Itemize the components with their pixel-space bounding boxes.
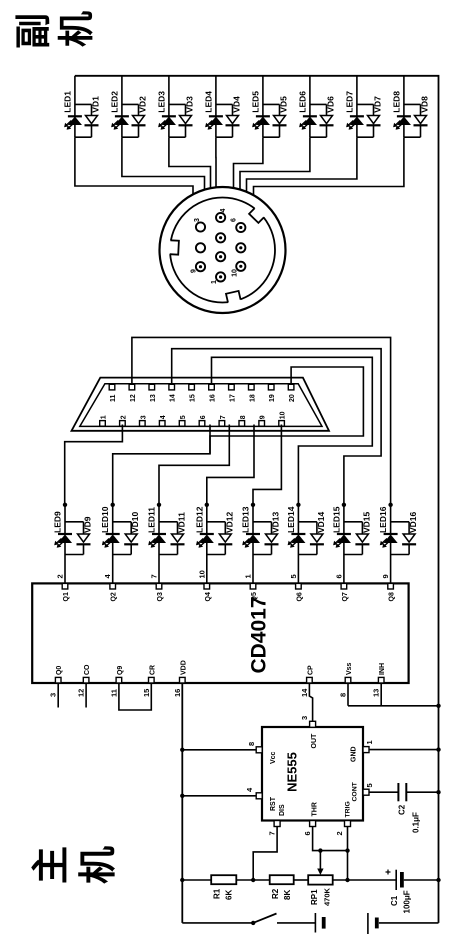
label C2 value xyxy=(412,812,421,833)
svg-text:12: 12 xyxy=(77,689,86,697)
svg-text:VD8: VD8 xyxy=(420,96,430,113)
svg-text:470K: 470K xyxy=(323,887,332,906)
wire U1 pin14 to U2 pin3 xyxy=(309,683,312,721)
resistor R2 xyxy=(270,875,294,884)
svg-text:LED5: LED5 xyxy=(250,91,260,113)
svg-text:1: 1 xyxy=(365,740,374,744)
svg-text:13: 13 xyxy=(372,689,381,697)
switch K blade xyxy=(253,914,276,923)
svg-text:VD12: VD12 xyxy=(224,511,234,533)
svg-text:VD13: VD13 xyxy=(271,511,281,533)
wire pin16 wrap to LED14 xyxy=(212,357,373,505)
svg-text:VD2: VD2 xyxy=(138,96,148,113)
diode VD2 xyxy=(132,116,146,126)
connector J2 top pin numbers 11-20 xyxy=(110,394,296,402)
svg-text:OUT: OUT xyxy=(311,733,318,749)
label R2 value xyxy=(283,890,292,900)
label VD10 xyxy=(130,511,140,533)
wire LED pair 8 to DIN connector xyxy=(254,137,404,195)
svg-text:8: 8 xyxy=(339,693,348,697)
U2 pad GND pin1 xyxy=(363,747,369,753)
wire U2 THR to wiper xyxy=(313,827,350,853)
svg-text:15: 15 xyxy=(190,394,197,402)
wire LED pair 3 to DIN connector xyxy=(169,137,211,188)
wire pin20 wrap xyxy=(210,367,363,454)
U1 top pin numbers xyxy=(56,570,391,578)
diode VD3 xyxy=(179,116,193,126)
svg-text:Vss: Vss xyxy=(346,662,353,675)
wire rail2 left xyxy=(182,921,255,925)
LED LED16 xyxy=(380,534,398,548)
label U1 CD4017 xyxy=(248,596,271,673)
svg-text:VD10: VD10 xyxy=(130,511,140,533)
U2 pin numbers xyxy=(245,716,374,836)
U2 pad CONT pin5 xyxy=(363,789,369,795)
label master-unit 主机 xyxy=(31,846,120,884)
U2 pad THR pin6 xyxy=(310,821,316,827)
svg-text:VD1: VD1 xyxy=(91,96,101,113)
svg-text:THR: THR xyxy=(312,802,319,816)
diode VD9 xyxy=(77,534,91,544)
label VD16 xyxy=(408,511,418,533)
wire U1 pin8 pin13 to ground rail xyxy=(348,683,441,708)
svg-text:VD6: VD6 xyxy=(326,96,336,113)
label LED3 xyxy=(156,91,166,113)
svg-text:LED11: LED11 xyxy=(147,507,157,533)
svg-text:CONT: CONT xyxy=(352,781,359,801)
label LED2 xyxy=(109,91,119,113)
svg-text:4: 4 xyxy=(160,415,167,419)
label LED11 xyxy=(147,507,157,533)
svg-text:Vcc: Vcc xyxy=(270,751,277,764)
svg-text:100μF: 100μF xyxy=(403,890,412,913)
svg-text:VD7: VD7 xyxy=(373,96,383,113)
wire VDD to U2 RST xyxy=(180,794,256,798)
LED LED3 xyxy=(158,116,176,130)
LED LED12 xyxy=(196,534,214,548)
connector J1 pin numbers xyxy=(191,208,239,284)
resistor R1 xyxy=(211,875,236,884)
svg-text:TRIG: TRIG xyxy=(345,801,352,817)
svg-text:14: 14 xyxy=(300,688,309,697)
svg-text:7: 7 xyxy=(268,831,277,835)
svg-text:LED14: LED14 xyxy=(286,506,296,533)
wire C2 to rail xyxy=(406,790,440,794)
connector J2 bottom row pins xyxy=(100,421,285,427)
diode VD8 xyxy=(414,116,428,126)
diode VD1 xyxy=(85,116,99,126)
wire LED pair 9 branches xyxy=(65,505,84,584)
label LED8 xyxy=(391,91,401,113)
label LED1 xyxy=(62,91,72,113)
wire pin14 wrap to LED15 xyxy=(172,349,381,505)
wire R2 to RP1 xyxy=(294,879,309,881)
svg-text:VD11: VD11 xyxy=(177,512,187,533)
U1 top pads xyxy=(62,583,393,589)
label C1 xyxy=(390,895,399,906)
wire VDD rail xyxy=(181,683,183,923)
svg-text:副: 副 xyxy=(13,13,54,49)
wire LED pair 4 branches xyxy=(216,76,233,137)
wire U2 TRIG to rail1 xyxy=(345,827,349,883)
wire LED pair 5 branches xyxy=(263,76,280,137)
svg-text:20: 20 xyxy=(289,394,296,402)
svg-text:6: 6 xyxy=(334,574,343,578)
svg-text:4: 4 xyxy=(220,208,227,212)
svg-text:CP: CP xyxy=(307,665,314,675)
wire U1 pin3 stub xyxy=(57,683,59,708)
svg-text:2: 2 xyxy=(335,831,344,835)
label R1 xyxy=(213,888,222,899)
label LED13 xyxy=(241,506,251,533)
label VD8 xyxy=(420,96,430,113)
label VD11 xyxy=(177,512,187,533)
label U2 NE555 xyxy=(285,752,300,792)
capacitor C1 polarized xyxy=(386,870,402,891)
wire LED pair 6 branches xyxy=(310,76,327,137)
svg-text:6: 6 xyxy=(231,218,238,222)
wire R1 to R2 xyxy=(236,879,269,881)
svg-text:9: 9 xyxy=(381,574,390,578)
wire pin9 to LED12 xyxy=(207,425,254,505)
svg-text:LED3: LED3 xyxy=(156,91,166,113)
svg-text:Q8: Q8 xyxy=(389,592,396,601)
label VD7 xyxy=(373,96,383,113)
svg-text:DIS: DIS xyxy=(279,804,286,816)
diode VD15 xyxy=(355,534,369,544)
label LED14 xyxy=(286,506,296,533)
svg-text:13: 13 xyxy=(150,394,157,402)
svg-text:LED10: LED10 xyxy=(100,506,110,533)
LED LED5 xyxy=(252,116,270,130)
label R1 value xyxy=(225,890,234,900)
svg-text:LED12: LED12 xyxy=(194,506,204,533)
diode VD7 xyxy=(367,116,381,126)
label slave-unit 副机 xyxy=(13,11,97,49)
svg-text:Q1: Q1 xyxy=(63,592,70,601)
svg-text:Q7: Q7 xyxy=(342,592,349,601)
label LED4 xyxy=(203,91,213,113)
LED LED11 xyxy=(148,534,166,548)
svg-text:1: 1 xyxy=(211,280,218,284)
svg-text:Q5: Q5 xyxy=(251,592,258,601)
svg-text:Q6: Q6 xyxy=(296,592,303,601)
LED LED8 xyxy=(393,116,411,130)
svg-text:LED4: LED4 xyxy=(203,91,213,113)
svg-text:10: 10 xyxy=(232,269,239,277)
wire switch to battery xyxy=(277,922,315,924)
label LED7 xyxy=(344,91,354,113)
wire LED pair 8 branches xyxy=(404,76,421,137)
svg-text:NE555: NE555 xyxy=(285,752,300,792)
wire pin2 to LED9 xyxy=(65,425,123,505)
wire C1 to rail xyxy=(404,878,441,882)
svg-text:RP1: RP1 xyxy=(310,889,319,905)
label VD15 xyxy=(361,511,371,533)
svg-text:9: 9 xyxy=(191,269,198,273)
wire battery to rail xyxy=(379,922,439,924)
svg-text:8K: 8K xyxy=(283,890,292,900)
svg-text:VD15: VD15 xyxy=(361,511,371,533)
label VD5 xyxy=(279,96,289,113)
wire LED pair 7 to DIN connector xyxy=(247,137,357,192)
svg-text:LED2: LED2 xyxy=(109,91,119,113)
LED LED14 xyxy=(288,534,306,548)
svg-text:机: 机 xyxy=(78,846,120,884)
svg-text:12: 12 xyxy=(130,394,137,402)
svg-text:GND: GND xyxy=(351,746,358,762)
svg-text:18: 18 xyxy=(249,394,256,402)
wire LED pair 13 branches xyxy=(253,505,272,584)
svg-text:16: 16 xyxy=(210,394,217,402)
battery cell 1 xyxy=(315,913,323,933)
wire U1 pin12 stub xyxy=(85,683,87,708)
svg-text:VD3: VD3 xyxy=(185,96,195,113)
svg-text:1: 1 xyxy=(101,415,108,419)
U2 pad DIS pin7 xyxy=(274,821,280,827)
IC U1 CD4017 body xyxy=(32,583,408,683)
label RP1 value xyxy=(323,887,332,906)
wire U1 pin11 to pin15 xyxy=(119,683,151,710)
label C2 xyxy=(398,804,407,815)
svg-text:14: 14 xyxy=(170,394,177,402)
svg-text:Q9: Q9 xyxy=(117,666,124,675)
U2 pad VCC pin8 xyxy=(256,747,262,753)
diode VD13 xyxy=(265,534,279,544)
label RP1 xyxy=(310,889,319,905)
wire LED pair 4 to DIN connector xyxy=(215,137,217,187)
label LED15 xyxy=(331,506,341,533)
connector J1 ring pins xyxy=(196,213,246,282)
svg-text:3: 3 xyxy=(194,218,201,222)
diode VD5 xyxy=(273,116,287,126)
U1 bottom pin numbers xyxy=(49,688,381,697)
svg-text:主: 主 xyxy=(31,846,73,884)
svg-text:LED15: LED15 xyxy=(331,506,341,533)
svg-text:5: 5 xyxy=(180,415,187,419)
svg-text:15: 15 xyxy=(142,689,151,697)
svg-text:VD9: VD9 xyxy=(83,516,93,533)
connector J2 outline inner xyxy=(80,384,322,427)
svg-text:机: 机 xyxy=(56,11,97,47)
junction dots row2 xyxy=(63,503,393,507)
diode VD6 xyxy=(320,116,334,126)
connector J2 bottom pin numbers 1-10 xyxy=(101,411,287,419)
svg-text:16: 16 xyxy=(173,689,182,697)
U1 top pin names Q1-Q8 xyxy=(63,592,396,601)
svg-text:LED1: LED1 xyxy=(62,91,72,113)
svg-text:LED6: LED6 xyxy=(297,91,307,113)
U1 bottom pin names xyxy=(56,660,386,675)
connector J1 key notch top-right xyxy=(249,206,266,223)
svg-text:LED8: LED8 xyxy=(391,91,401,113)
svg-text:CR: CR xyxy=(149,665,156,675)
diode VD16 xyxy=(402,534,416,544)
connector J1 key notch bottom xyxy=(226,291,241,306)
LED LED15 xyxy=(333,534,351,548)
svg-text:0.1μF: 0.1μF xyxy=(412,812,421,833)
wire pin12 wrap to LED16 xyxy=(132,337,391,504)
svg-text:3: 3 xyxy=(49,693,58,697)
diode VD12 xyxy=(218,534,232,544)
LED LED13 xyxy=(242,534,260,548)
svg-text:11: 11 xyxy=(110,394,117,402)
wire LED pair 1 branches xyxy=(75,76,92,137)
label R2 xyxy=(271,888,280,899)
wire LED pair 11 branches xyxy=(159,505,178,584)
wire U2 CONT to C2 xyxy=(369,791,398,793)
svg-text:LED7: LED7 xyxy=(344,91,354,113)
wire LED pair 14 branches xyxy=(298,505,317,584)
wire LED pair 1 to DIN connector xyxy=(75,137,193,194)
wire U2 DIS to R1-R2 node xyxy=(251,827,277,883)
label VD4 xyxy=(232,96,242,113)
svg-text:7: 7 xyxy=(150,574,159,578)
wire top bus and right rail xyxy=(75,76,439,923)
connector J2 top row pins xyxy=(109,384,294,390)
svg-text:VDD: VDD xyxy=(180,660,187,675)
wire VDD to U2 VCC xyxy=(180,748,256,752)
svg-text:5: 5 xyxy=(365,783,374,787)
label LED5 xyxy=(250,91,260,113)
LED LED10 xyxy=(102,534,120,548)
svg-text:CO: CO xyxy=(84,664,91,675)
svg-text:LED9: LED9 xyxy=(53,511,63,533)
svg-text:8: 8 xyxy=(247,742,256,746)
svg-text:9: 9 xyxy=(260,415,267,419)
diode VD11 xyxy=(171,534,185,544)
label LED6 xyxy=(297,91,307,113)
label LED9 xyxy=(53,511,63,533)
label VD13 xyxy=(271,511,281,533)
svg-text:LED13: LED13 xyxy=(241,506,251,533)
wire LED pair 12 branches xyxy=(207,505,226,584)
wire LED pair 15 branches xyxy=(344,505,363,584)
LED LED7 xyxy=(346,116,364,130)
wire pin10 to LED13 xyxy=(253,425,281,505)
svg-text:R1: R1 xyxy=(213,888,222,899)
potentiometer RP1 xyxy=(308,875,333,884)
label VD12 xyxy=(224,511,234,533)
svg-text:8: 8 xyxy=(240,415,247,419)
connector J2 outline outer xyxy=(72,378,330,431)
label VD3 xyxy=(185,96,195,113)
wire RP1 to C1 xyxy=(333,879,397,881)
wire U2 GND to rail xyxy=(369,747,441,751)
battery cell 2 xyxy=(368,913,377,934)
U2 pad TRIG pin2 xyxy=(345,821,351,827)
label VD6 xyxy=(326,96,336,113)
svg-text:5: 5 xyxy=(289,574,298,578)
svg-text:VD5: VD5 xyxy=(279,96,289,113)
svg-text:CD4017: CD4017 xyxy=(248,596,271,673)
label LED16 xyxy=(378,506,388,533)
diode VD4 xyxy=(226,116,240,126)
label VD9 xyxy=(83,516,93,533)
U2 pin names xyxy=(270,733,359,818)
label C1 value xyxy=(403,890,412,913)
U1 bottom pads xyxy=(55,677,384,683)
svg-text:LED16: LED16 xyxy=(378,506,388,533)
svg-text:6: 6 xyxy=(200,415,207,419)
svg-text:1: 1 xyxy=(244,574,253,578)
svg-text:Q0: Q0 xyxy=(56,666,63,675)
svg-text:C1: C1 xyxy=(390,895,399,906)
svg-text:VD16: VD16 xyxy=(408,511,418,533)
svg-text:10: 10 xyxy=(280,411,287,419)
svg-text:INH: INH xyxy=(379,663,386,675)
label VD1 xyxy=(91,96,101,113)
connector J1 key notch left xyxy=(167,240,179,255)
svg-text:10: 10 xyxy=(197,570,206,578)
wire LED pair 2 branches xyxy=(122,76,139,137)
wire pin7 to LED11 xyxy=(159,425,229,505)
svg-text:VD14: VD14 xyxy=(316,511,326,533)
LED LED6 xyxy=(299,116,317,130)
svg-text:RST: RST xyxy=(270,796,277,811)
wire LED pair 2 to DIN connector xyxy=(122,137,205,190)
label VD2 xyxy=(138,96,148,113)
connector J1 plain pins xyxy=(196,222,205,252)
svg-text:17: 17 xyxy=(229,394,236,402)
wire LED pair 16 branches xyxy=(391,505,410,584)
LED LED1 xyxy=(64,116,82,130)
svg-text:19: 19 xyxy=(269,394,276,402)
svg-text:R2: R2 xyxy=(271,888,280,899)
svg-text:3: 3 xyxy=(300,716,309,720)
diode VD10 xyxy=(124,534,138,544)
wire LED pair 3 branches xyxy=(169,76,186,137)
svg-text:6K: 6K xyxy=(225,890,234,900)
label LED12 xyxy=(194,506,204,533)
IC U2 NE555 body xyxy=(262,727,363,821)
svg-text:6: 6 xyxy=(303,831,312,835)
LED LED4 xyxy=(205,116,223,130)
diode VD14 xyxy=(310,534,324,544)
U2 pad OUT pin3 xyxy=(310,721,316,727)
wire LED pair 7 branches xyxy=(357,76,374,137)
svg-text:C2: C2 xyxy=(398,804,407,815)
wire LED pair 10 branches xyxy=(113,505,132,584)
connector J1 DIN socket body xyxy=(160,187,286,313)
svg-text:Q4: Q4 xyxy=(205,592,212,601)
label VD14 xyxy=(316,511,326,533)
RP1 wiper arrow xyxy=(317,851,323,875)
svg-text:VD4: VD4 xyxy=(232,96,242,113)
label LED10 xyxy=(100,506,110,533)
LED LED9 xyxy=(54,534,72,548)
capacitor C2 xyxy=(398,783,406,801)
wire LED pair 5 to DIN connector xyxy=(234,137,263,188)
LED LED2 xyxy=(111,116,129,130)
svg-text:11: 11 xyxy=(109,689,118,697)
svg-text:2: 2 xyxy=(56,574,65,578)
wire pin6 to LED10 xyxy=(113,425,210,505)
U2 pad RST pin4 xyxy=(256,793,262,799)
wire rail1 left xyxy=(180,878,211,882)
svg-text:2: 2 xyxy=(120,415,127,419)
svg-text:Q2: Q2 xyxy=(111,592,118,601)
svg-text:3: 3 xyxy=(140,415,147,419)
svg-text:7: 7 xyxy=(220,415,227,419)
wire LED pair 6 to DIN connector xyxy=(240,137,310,190)
svg-text:Q3: Q3 xyxy=(157,592,164,601)
